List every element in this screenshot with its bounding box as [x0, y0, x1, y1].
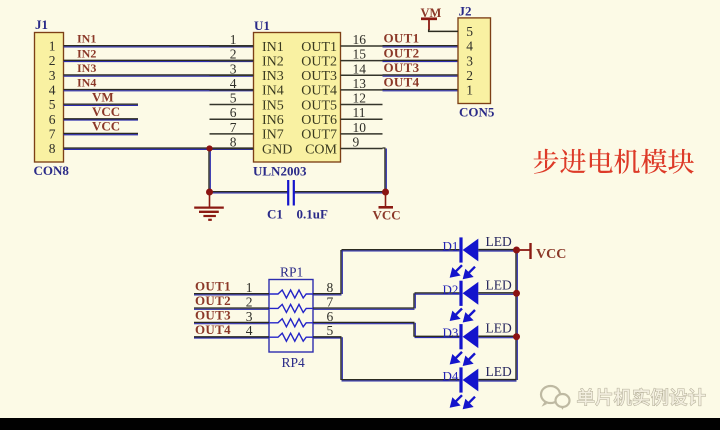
- connector J2: [458, 18, 491, 104]
- svg-text:IN4: IN4: [262, 84, 284, 99]
- junction GND bottom node: [206, 189, 213, 196]
- svg-text:VCC: VCC: [373, 208, 401, 223]
- LED D4: [451, 367, 516, 407]
- svg-text:1: 1: [230, 32, 237, 47]
- wire VM to J2 pin5: [429, 30, 458, 32]
- wire to D3 anode: [415, 336, 460, 337]
- svg-text:IN6: IN6: [262, 113, 284, 128]
- junction VCC node: [382, 189, 389, 196]
- svg-text:10: 10: [353, 120, 367, 135]
- pin 1 U1 left stub: [210, 32, 254, 47]
- svg-text:3: 3: [230, 61, 237, 76]
- pin 3 U1 left stub: [210, 61, 254, 76]
- wire OUT2 to RP1 pin 2: [194, 308, 269, 309]
- svg-text:OUT4: OUT4: [301, 84, 337, 99]
- svg-text:OUT6: OUT6: [301, 113, 337, 128]
- watermark wechat logo: [541, 386, 570, 410]
- wire C1 to VCC node: [294, 192, 386, 193]
- wire IN4: [64, 90, 254, 91]
- svg-text:J1: J1: [35, 17, 48, 32]
- svg-text:LED: LED: [486, 364, 512, 379]
- wire riser to D1: [341, 250, 342, 294]
- pin 6 U1 left stub: [210, 105, 254, 120]
- svg-text:2: 2: [466, 68, 473, 83]
- svg-text:OUT4: OUT4: [195, 322, 231, 337]
- wire RP pin5 right: [313, 337, 342, 338]
- wire riser to D2: [414, 293, 415, 308]
- svg-text:D1: D1: [443, 239, 459, 254]
- wire J1 pin8 to GND node: [64, 148, 254, 149]
- wire to D2 anode: [415, 293, 460, 294]
- LED D3: [451, 324, 516, 364]
- wire OUT4 to J2: [383, 90, 459, 91]
- wire VCC bus: [516, 250, 517, 380]
- svg-text:RP4: RP4: [282, 355, 306, 370]
- pin 14 U1 right stub: [341, 61, 383, 76]
- svg-text:2: 2: [230, 47, 237, 62]
- svg-text:IN7: IN7: [262, 128, 284, 143]
- LED D1: [451, 237, 516, 277]
- svg-text:4: 4: [246, 323, 253, 338]
- wire riser to D3: [414, 323, 415, 337]
- svg-text:IN1: IN1: [77, 32, 96, 46]
- svg-text:4: 4: [230, 76, 237, 91]
- svg-text:LED: LED: [486, 321, 512, 336]
- svg-text:OUT2: OUT2: [384, 45, 420, 60]
- watermark text 单片机实例设计: [577, 388, 705, 405]
- svg-text:IN5: IN5: [262, 98, 284, 113]
- wire COM pin9 to VCC node: [383, 147, 386, 149]
- svg-text:IN3: IN3: [262, 69, 284, 84]
- svg-text:13: 13: [353, 76, 367, 91]
- pin 2 U1 left stub: [210, 47, 254, 62]
- svg-text:D4: D4: [443, 369, 459, 384]
- svg-text:8: 8: [230, 134, 237, 149]
- svg-text:9: 9: [353, 134, 360, 149]
- svg-text:LED: LED: [486, 234, 512, 249]
- pin 15 U1 right stub: [341, 47, 383, 62]
- svg-text:VCC: VCC: [92, 119, 120, 134]
- svg-text:5: 5: [327, 323, 334, 338]
- pin 7 U1 left stub: [210, 120, 254, 135]
- wire to D1 anode: [342, 250, 460, 251]
- svg-text:15: 15: [353, 47, 367, 62]
- title 步进电机模块: [534, 149, 694, 174]
- pin 16 U1 right stub: [341, 32, 383, 47]
- svg-text:CON5: CON5: [459, 105, 495, 120]
- svg-text:OUT3: OUT3: [195, 308, 231, 323]
- pin 5 U1 left stub: [210, 91, 254, 106]
- op-amp U1 ULN2003 body: [254, 33, 341, 163]
- wire to D4 anode: [342, 380, 460, 381]
- svg-text:6: 6: [327, 309, 334, 324]
- capacitor C1: [288, 180, 294, 206]
- wire OUT2 to J2: [383, 60, 459, 61]
- svg-text:GND: GND: [262, 142, 292, 157]
- svg-text:3: 3: [246, 309, 253, 324]
- svg-text:1: 1: [466, 83, 473, 98]
- svg-text:7: 7: [230, 120, 237, 135]
- wire RP pin6 right: [313, 322, 415, 323]
- svg-text:VCC: VCC: [536, 247, 566, 262]
- svg-text:OUT1: OUT1: [195, 279, 231, 294]
- junction bus D1: [513, 247, 520, 254]
- svg-text:OUT3: OUT3: [384, 60, 420, 75]
- svg-text:3: 3: [49, 68, 56, 83]
- svg-text:IN1: IN1: [262, 40, 284, 55]
- svg-text:D2: D2: [443, 282, 459, 297]
- svg-text:0.1uF: 0.1uF: [297, 207, 328, 222]
- wire GND node to C1: [210, 192, 289, 193]
- svg-text:VM: VM: [92, 89, 114, 104]
- svg-text:OUT4: OUT4: [384, 75, 420, 90]
- svg-text:IN2: IN2: [77, 46, 96, 60]
- wire OUT3 to J2: [383, 75, 459, 76]
- wire OUT1 to RP1 pin 1: [194, 294, 269, 295]
- bottom black bar: [0, 418, 720, 430]
- svg-text:16: 16: [353, 32, 367, 47]
- wire VM stub: [64, 104, 139, 105]
- pin 4 U1 left stub: [210, 76, 254, 91]
- svg-text:OUT5: OUT5: [301, 98, 337, 113]
- wire RP pin7 right: [313, 308, 415, 309]
- wire OUT3 to RP1 pin 3: [194, 322, 269, 323]
- svg-text:5: 5: [466, 24, 473, 39]
- svg-text:4: 4: [49, 83, 56, 98]
- svg-text:OUT3: OUT3: [301, 69, 337, 84]
- svg-text:RP1: RP1: [280, 265, 303, 280]
- svg-text:IN2: IN2: [262, 54, 284, 69]
- power port VCC bottom: [373, 192, 401, 223]
- pin 13 U1 right stub: [341, 76, 383, 91]
- wire RP pin8 right: [313, 294, 342, 295]
- svg-text:7: 7: [327, 294, 334, 309]
- svg-text:2: 2: [49, 53, 56, 68]
- svg-text:ULN2003: ULN2003: [253, 164, 307, 179]
- svg-text:8: 8: [49, 141, 56, 156]
- svg-text:OUT1: OUT1: [301, 40, 337, 55]
- svg-text:IN3: IN3: [77, 61, 96, 75]
- svg-text:J2: J2: [459, 3, 472, 18]
- resistor pack RP1 body: [269, 280, 313, 353]
- svg-text:14: 14: [353, 61, 367, 76]
- svg-text:5: 5: [49, 97, 56, 112]
- svg-text:C1: C1: [267, 207, 283, 222]
- svg-text:1: 1: [246, 280, 253, 295]
- svg-text:1: 1: [49, 39, 56, 54]
- svg-text:3: 3: [466, 53, 473, 68]
- connector J1: [35, 33, 64, 163]
- ground: [194, 192, 224, 220]
- wire vertical pin9 down: [385, 148, 386, 191]
- svg-text:LED: LED: [486, 277, 512, 292]
- pin 11 U1 right stub: [341, 105, 383, 120]
- svg-text:6: 6: [49, 112, 56, 127]
- junction bus D3: [513, 333, 520, 340]
- wire VCC stub pin7: [64, 133, 139, 134]
- wire VCC stub pin6: [64, 119, 139, 120]
- pin 12 U1 right stub: [341, 91, 383, 106]
- svg-text:4: 4: [466, 39, 473, 54]
- junction GND top node: [206, 145, 212, 151]
- svg-text:7: 7: [49, 126, 56, 141]
- svg-text:OUT1: OUT1: [384, 31, 420, 46]
- svg-text:VM: VM: [421, 6, 442, 20]
- svg-text:8: 8: [327, 280, 334, 295]
- wire OUT4 to RP1 pin 4: [194, 337, 269, 338]
- power port VCC right: [517, 243, 567, 262]
- pin 10 U1 right stub: [341, 120, 383, 135]
- svg-text:OUT2: OUT2: [195, 293, 231, 308]
- svg-text:OUT7: OUT7: [301, 128, 337, 143]
- wire OUT1 to J2: [383, 46, 459, 47]
- svg-text:12: 12: [353, 91, 367, 106]
- svg-text:U1: U1: [254, 18, 270, 33]
- svg-text:COM: COM: [305, 142, 337, 157]
- wire IN1: [64, 46, 254, 47]
- svg-text:IN4: IN4: [77, 76, 96, 90]
- wire IN3: [64, 75, 254, 76]
- pin 8 U1 left stub: [210, 134, 254, 149]
- svg-text:6: 6: [230, 105, 237, 120]
- svg-text:CON8: CON8: [34, 163, 70, 178]
- LED D2: [451, 281, 516, 321]
- power port VM: [421, 6, 442, 30]
- svg-text:VCC: VCC: [92, 104, 120, 119]
- wire IN2: [64, 60, 254, 61]
- junction bus D2: [513, 290, 520, 297]
- svg-text:D3: D3: [443, 325, 459, 340]
- svg-text:11: 11: [353, 105, 366, 120]
- svg-text:5: 5: [230, 91, 237, 106]
- wire GND node down: [209, 148, 210, 192]
- svg-text:2: 2: [246, 294, 253, 309]
- svg-text:OUT2: OUT2: [301, 54, 337, 69]
- pin 9 U1 right stub: [341, 134, 383, 149]
- wire riser to D4: [341, 337, 342, 380]
